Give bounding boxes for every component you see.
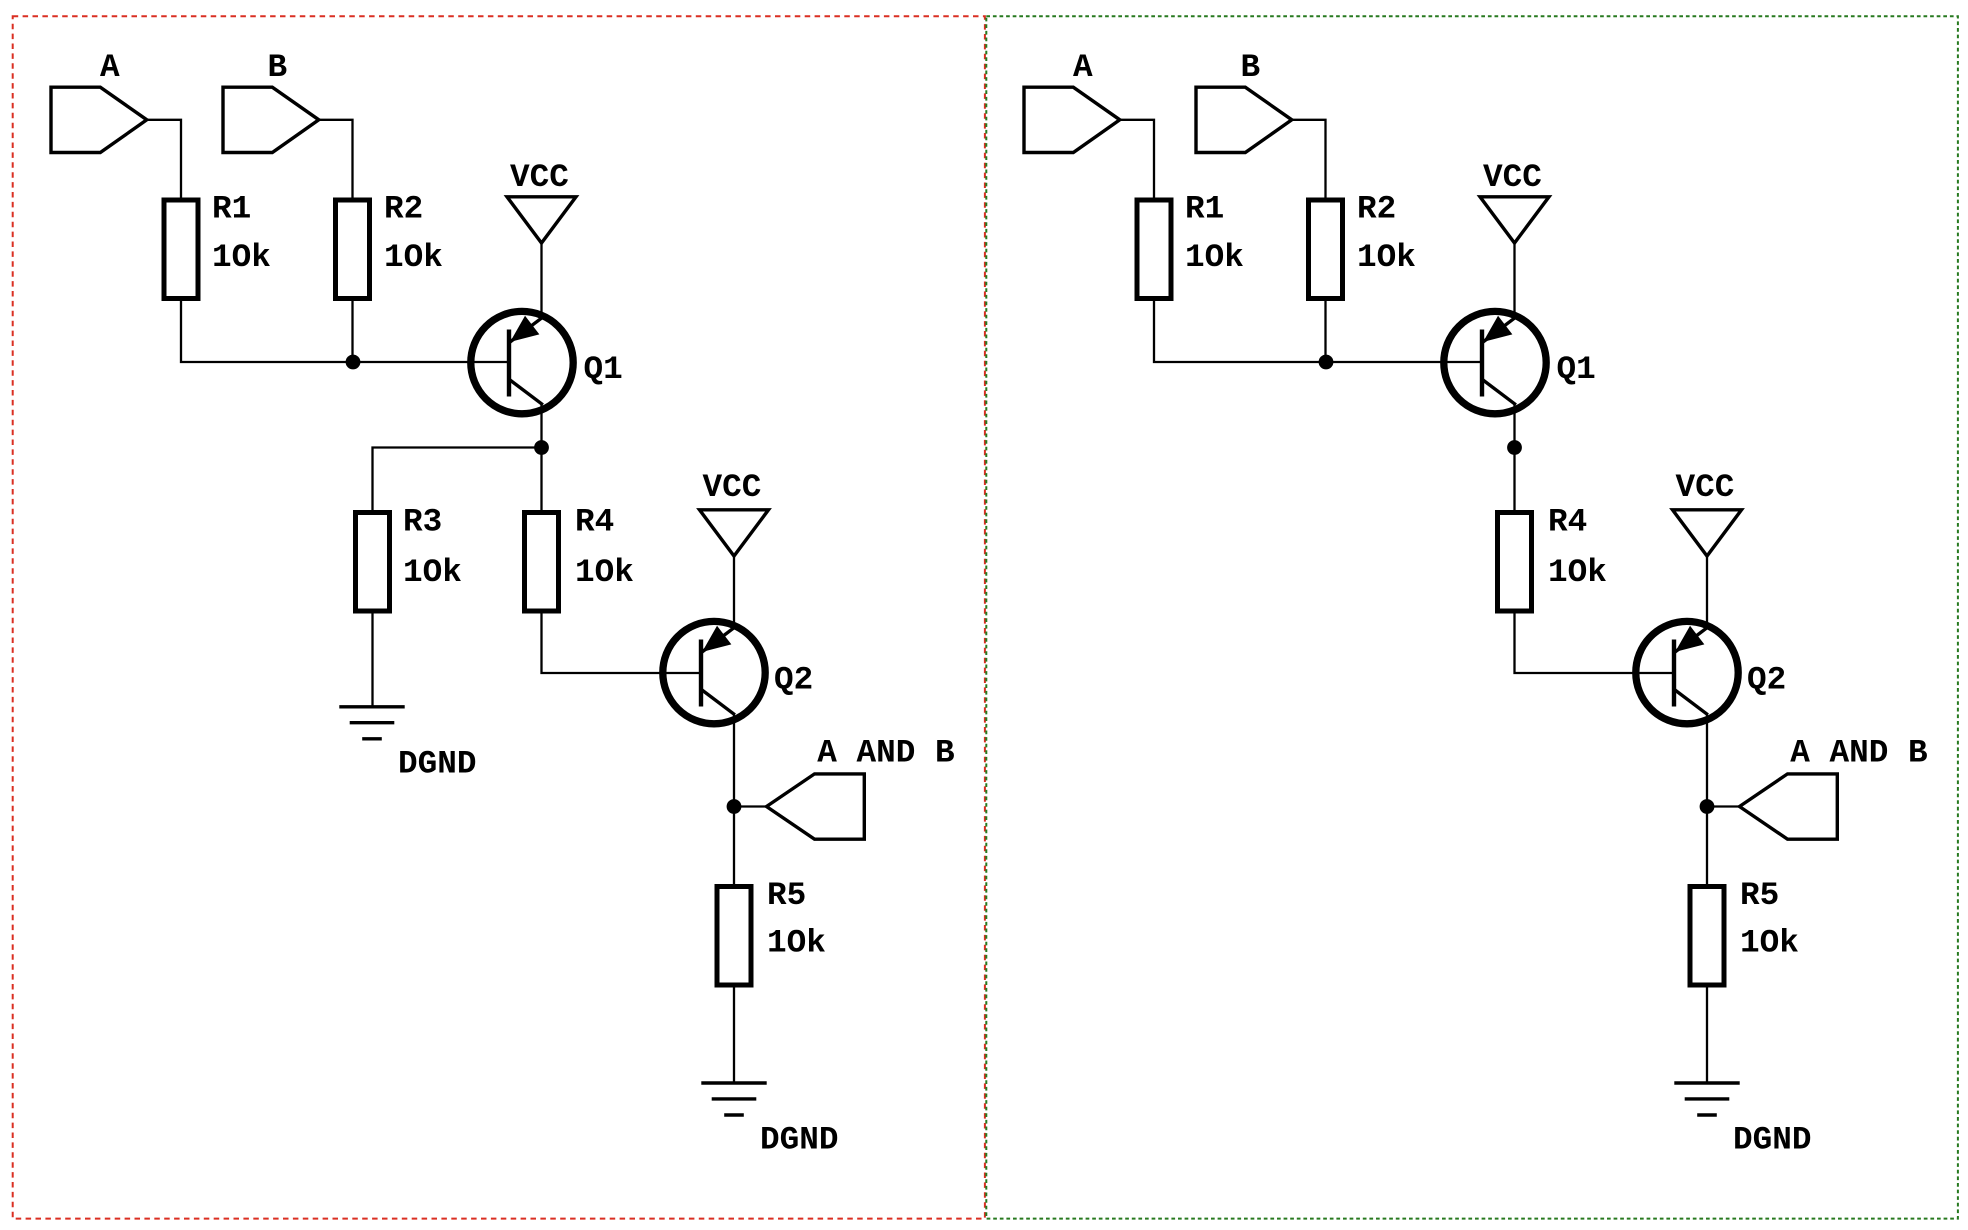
svg-text:R3: R3 <box>403 504 442 541</box>
wire node to output flag <box>1707 805 1740 807</box>
power VCC symbol <box>1673 510 1742 556</box>
wire Q1 collector to node <box>1513 405 1515 448</box>
transistor Q1 (PNP) <box>1444 311 1546 413</box>
svg-text:R1: R1 <box>212 191 251 228</box>
wire VCC to Q1 emitter <box>540 243 542 319</box>
wire R2 to node <box>351 299 353 363</box>
wire VCC to Q1 emitter <box>1513 243 1515 319</box>
svg-text:R5: R5 <box>1740 877 1779 914</box>
svg-text:1Ok: 1Ok <box>575 554 634 591</box>
svg-text:R2: R2 <box>1357 191 1396 228</box>
wire R3 to ground <box>371 611 373 707</box>
wire R5 to ground <box>1706 985 1708 1083</box>
wire node to output flag <box>734 805 767 807</box>
wire R4 to Q2 base <box>1515 611 1675 673</box>
wire Q2 collector to output node <box>733 715 735 807</box>
junction node (base of Q1) <box>1319 355 1334 370</box>
wire R1 to node <box>1154 299 1326 363</box>
svg-text:1Ok: 1Ok <box>1740 925 1799 962</box>
resistor R1 <box>1137 200 1171 299</box>
wire VCC to Q2 emitter <box>733 556 735 629</box>
svg-text:VCC: VCC <box>1483 159 1542 196</box>
wire flag A to R1 <box>1120 120 1154 200</box>
wire node to R3 <box>373 448 542 513</box>
input flag A <box>1024 87 1120 152</box>
svg-text:R2: R2 <box>384 191 423 228</box>
wire flag A to R1 <box>147 120 181 200</box>
svg-text:1Ok: 1Ok <box>1548 554 1607 591</box>
ground DGND (left) <box>339 707 404 739</box>
svg-text:1Ok: 1Ok <box>384 239 443 276</box>
svg-text:Q1: Q1 <box>584 351 623 388</box>
svg-text:A: A <box>1073 49 1093 86</box>
svg-text:R4: R4 <box>575 504 614 541</box>
left panel border (red dotted) <box>13 16 985 1218</box>
wire node to R4 <box>1513 448 1515 513</box>
svg-text:Q2: Q2 <box>774 662 813 699</box>
resistor R5 <box>1690 887 1724 986</box>
wire R5 to ground <box>733 985 735 1083</box>
wire R4 to Q2 base <box>542 611 702 673</box>
input flag A <box>51 87 147 152</box>
resistor R4 <box>525 513 559 612</box>
svg-text:A AND B: A AND B <box>817 735 954 772</box>
right panel border (green dotted) <box>986 16 1958 1218</box>
svg-text:VCC: VCC <box>703 469 762 506</box>
svg-text:Q1: Q1 <box>1557 351 1596 388</box>
transistor Q2 (PNP) <box>663 621 765 723</box>
output flag A AND B <box>767 774 865 839</box>
svg-text:R5: R5 <box>767 877 806 914</box>
junction node (base of Q1) <box>346 355 361 370</box>
wire R1 to node <box>181 299 353 363</box>
svg-text:1Ok: 1Ok <box>403 554 462 591</box>
svg-text:1Ok: 1Ok <box>767 925 826 962</box>
wire node to Q1 base <box>1326 361 1483 363</box>
resistor R1 <box>164 200 198 299</box>
wire VCC to Q2 emitter <box>1706 556 1708 629</box>
input flag B <box>223 87 319 152</box>
junction node (output) <box>727 799 742 814</box>
junction node (Q1 collector) <box>1507 440 1522 455</box>
wire flag B to R2 <box>319 120 353 200</box>
svg-text:VCC: VCC <box>510 159 569 196</box>
wire Q2 collector to output node <box>1706 715 1708 807</box>
svg-text:1Ok: 1Ok <box>212 239 271 276</box>
svg-text:1Ok: 1Ok <box>1185 239 1244 276</box>
resistor R2 <box>336 200 370 299</box>
wire R2 to node <box>1324 299 1326 363</box>
input flag B <box>1196 87 1292 152</box>
wire node to R5 <box>1706 807 1708 887</box>
power VCC symbol <box>507 197 576 243</box>
svg-text:R4: R4 <box>1548 504 1587 541</box>
svg-text:A: A <box>100 49 120 86</box>
svg-text:B: B <box>268 49 288 86</box>
svg-text:VCC: VCC <box>1676 469 1735 506</box>
svg-text:DGND: DGND <box>760 1122 838 1159</box>
wire node to R4 <box>540 448 542 513</box>
output flag A AND B <box>1740 774 1838 839</box>
wire flag B to R2 <box>1292 120 1326 200</box>
resistor R2 <box>1309 200 1343 299</box>
wire node to R5 <box>733 807 735 887</box>
resistor R5 <box>717 887 751 986</box>
transistor Q1 (PNP) <box>471 311 573 413</box>
svg-text:DGND: DGND <box>1733 1122 1811 1159</box>
transistor Q2 (PNP) <box>1636 621 1738 723</box>
power VCC symbol <box>700 510 769 556</box>
ground DGND (output) <box>1674 1083 1739 1115</box>
power VCC symbol <box>1480 197 1549 243</box>
svg-text:Q2: Q2 <box>1747 662 1786 699</box>
resistor R3 <box>356 513 390 612</box>
wire Q1 collector to node <box>540 405 542 448</box>
resistor R4 <box>1498 513 1532 612</box>
svg-text:A AND B: A AND B <box>1790 735 1927 772</box>
junction node (output) <box>1700 799 1715 814</box>
junction node (Q1 collector) <box>534 440 549 455</box>
svg-text:R1: R1 <box>1185 191 1224 228</box>
svg-text:B: B <box>1241 49 1261 86</box>
svg-text:DGND: DGND <box>398 746 476 783</box>
svg-text:1Ok: 1Ok <box>1357 239 1416 276</box>
wire node to Q1 base <box>353 361 510 363</box>
ground DGND (output) <box>701 1083 766 1115</box>
